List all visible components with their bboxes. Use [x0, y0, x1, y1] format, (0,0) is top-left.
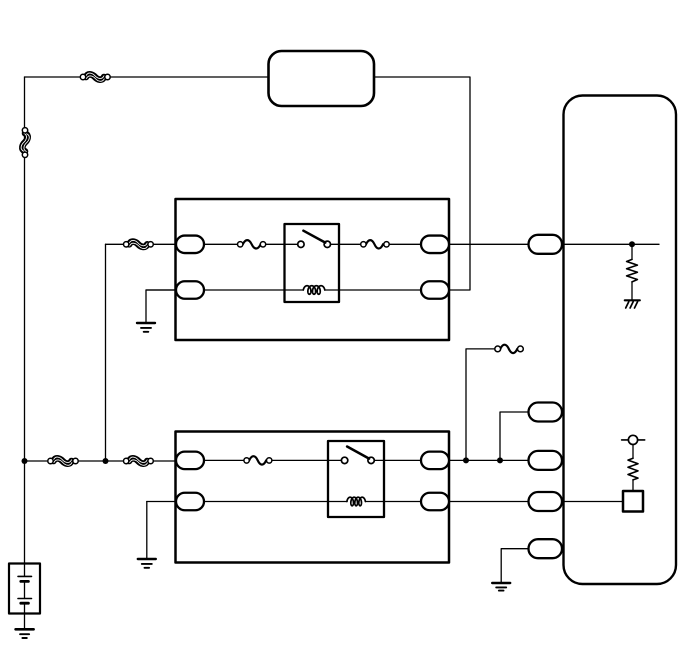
relay box 1 outer	[176, 199, 450, 340]
battery cell plates	[18, 576, 32, 603]
wire y=501.5 inside block to actuator square	[562, 501, 623, 503]
junction dot R1 node	[629, 241, 635, 247]
wire relay1 to ECU row y=244.3 inside block	[562, 243, 659, 245]
chassis ground for R1	[625, 300, 640, 308]
fusible link FL2 left vertical	[21, 128, 29, 158]
wire battery internal stems	[24, 564, 26, 630]
ECU block (right rounded)	[564, 96, 677, 585]
wire relay1 feed y=244.3	[106, 243, 179, 245]
connector pill ECU pin B y=460.4	[529, 451, 563, 470]
relay 2 contacts inner box	[328, 441, 384, 517]
fusible link FL4 bottom feed right	[124, 457, 154, 465]
connector pill relay1 right pin2	[421, 281, 449, 299]
junction dot open fuse branch	[463, 457, 469, 463]
wire sensor stem to resistor R2 and square	[632, 445, 634, 492]
ground G1 relay1	[137, 323, 155, 332]
fusible link FL3 bottom feed left	[48, 457, 78, 465]
connector pill ECU pin C y=501.5	[529, 492, 563, 511]
connector pill relay1 left pin2	[176, 281, 204, 299]
connector pill relay2 left pin2	[176, 493, 204, 511]
connector pill ECU pin top y=244.3	[529, 235, 563, 254]
resistor R2 inside ECU	[628, 458, 638, 480]
wire branch to pill A y=412	[500, 412, 529, 460]
fusible link FL5 relay1 feed y=244.3	[124, 240, 154, 248]
relay 1 coil	[303, 286, 325, 295]
control module box (top rounded)	[269, 51, 375, 106]
wire relay1 internal contact row y=244.3	[204, 243, 529, 245]
relay 1 contacts inner box	[285, 224, 340, 302]
connector pill relay2 left pin1	[176, 452, 204, 470]
wire riser x=105.5 from relay1 feed down to y=461	[105, 244, 107, 461]
wire bottom feed y=461 to relay 2	[25, 460, 179, 462]
wire from control box right side down to relay1 coil	[374, 77, 470, 290]
wire left vertical main x=24.5	[24, 77, 26, 564]
relay box 2 outer	[176, 432, 450, 563]
relay 2 switch contact circles	[341, 457, 347, 463]
wire relay1 coil row y=290	[146, 289, 449, 291]
wire battery feed top horizontal y=77	[25, 76, 269, 78]
battery B1 box	[9, 564, 40, 614]
connector pill relay2 right pin2	[421, 493, 449, 511]
fuse F4 open terminal near ECU	[495, 345, 523, 353]
wire pill D ground branch	[501, 549, 530, 583]
ground G2 relay2	[138, 559, 156, 568]
wire resistor R1 stem	[631, 244, 633, 300]
wire relay2 contact row y=460.4	[204, 459, 529, 461]
wire relay2 coil row y=501.5	[147, 501, 529, 503]
connector pill ECU pin D y=548.7	[529, 539, 563, 558]
connector pill relay1 right pin1	[421, 236, 449, 254]
wire branch to open fuse terminal	[466, 349, 495, 461]
relay 1 switch contact circles	[298, 241, 304, 247]
ground G3 battery	[16, 629, 34, 638]
fuse F2 inside relay1 right	[361, 240, 390, 248]
connector pill relay2 right pin1	[421, 452, 449, 470]
wire relay2 ground branch	[146, 502, 148, 560]
ground G4 ECU pill D	[492, 583, 510, 591]
resistor R1 inside ECU	[627, 259, 638, 282]
junction dot pill A branch	[497, 457, 503, 463]
junction dot riser/feed	[103, 458, 109, 464]
fusible link FL1 top horizontal	[80, 73, 110, 81]
relay 2 switch blade	[347, 447, 369, 459]
actuator square inside ECU	[623, 491, 643, 512]
fuse F3 inside relay2	[244, 456, 272, 464]
wire relay1 ground branch	[146, 290, 178, 323]
relay 2 coil	[347, 497, 366, 506]
relay 1 switch blade	[303, 231, 325, 243]
junction dot battery/feed	[22, 458, 28, 464]
connector pill relay1 left pin1	[176, 236, 204, 254]
fuse F1 inside relay1 left	[238, 240, 266, 248]
connector pill ECU pin A y=412	[529, 403, 563, 422]
sensor terminal circle inside ECU	[622, 435, 645, 444]
